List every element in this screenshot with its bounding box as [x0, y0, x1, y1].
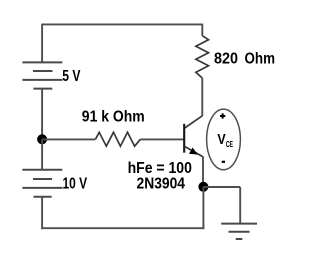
wire left rail upper — [41, 24, 43, 63]
label VCE — [217, 131, 233, 149]
wire from resistor R1 to base of Q1 — [140, 138, 183, 140]
resistor R1 91 k Ohm zigzag — [95, 132, 140, 146]
svg-text:91 k Ohm: 91 k Ohm — [82, 109, 145, 126]
svg-text:hFe = 100: hFe = 100 — [128, 160, 192, 177]
transistor Q1 emitter arrow — [189, 148, 198, 155]
voltmeter plus sign — [220, 113, 225, 118]
wire left rail lower — [41, 197, 43, 229]
svg-text:820: 820 — [214, 50, 238, 67]
voltmeter minus sign — [222, 161, 225, 163]
node A junction dot — [37, 134, 47, 144]
wire bottom rail — [41, 227, 204, 229]
wire left rail between node A and battery B2 — [41, 139, 43, 169]
transistor Q1 emitter lead — [185, 147, 203, 157]
battery B2 10V — [22, 170, 62, 197]
wire ground vertical — [239, 187, 241, 224]
svg-text:10 V: 10 V — [63, 176, 88, 193]
battery B1 5V — [22, 62, 62, 88]
voltmeter VCE ellipse — [207, 109, 241, 170]
label 820 Ohm — [214, 50, 275, 67]
ground symbol — [221, 224, 257, 239]
svg-text:V: V — [217, 131, 225, 148]
node B junction dot — [198, 182, 208, 192]
wire right rail upper — [201, 24, 203, 36]
wire emitter down to node B — [202, 156, 204, 186]
label 2N3904 — [137, 176, 186, 193]
wire left rail between battery B1 and node A — [41, 89, 43, 140]
label 91 k Ohm — [82, 109, 145, 126]
wire base from node A to resistor R1 — [42, 138, 95, 140]
wire node B to ground — [203, 186, 240, 188]
transistor Q1 2N3904 collector lead — [185, 116, 203, 128]
svg-text:5 V: 5 V — [62, 68, 81, 85]
label hFe = 100 — [128, 160, 192, 177]
svg-text:CE: CE — [226, 140, 234, 149]
wire top rail — [42, 23, 202, 25]
wire node B down to bottom rail — [202, 187, 204, 229]
resistor R2 820 Ohm zigzag — [196, 36, 209, 78]
label 10 V — [63, 176, 88, 193]
wire collector rail from resistor R2 down — [201, 78, 203, 116]
svg-text:Ohm: Ohm — [245, 50, 276, 67]
label 5 V — [62, 68, 81, 85]
transistor Q1 base bar — [183, 124, 185, 153]
svg-text:2N3904: 2N3904 — [137, 176, 186, 193]
